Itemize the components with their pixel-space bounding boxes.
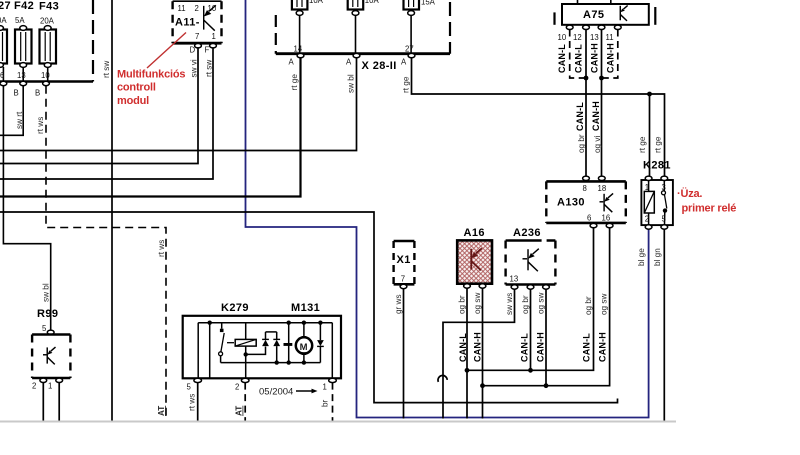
- blue routing wire bl ge bus: [246, 0, 649, 418]
- svg-text:13: 13: [510, 275, 519, 284]
- junction dot coil branch: [244, 352, 248, 356]
- terminal pin 6: [0, 81, 7, 85]
- junction dot CAN-L A16: [465, 368, 470, 373]
- K281 terminal bottom 2: [645, 225, 652, 229]
- twisted pair curl: [438, 375, 447, 381]
- svg-text:CAN-H: CAN-H: [590, 43, 600, 73]
- svg-text:rt ge: rt ge: [638, 136, 647, 153]
- wire A130 pin6 og br to CAN-L bus: [467, 228, 594, 370]
- mechanical link dashes: [227, 342, 234, 344]
- svg-text:og vi: og vi: [593, 136, 602, 153]
- svg-text:A: A: [346, 58, 352, 67]
- svg-text:10A: 10A: [309, 0, 324, 5]
- svg-text:gr ws: gr ws: [394, 294, 403, 314]
- svg-text:1: 1: [212, 32, 216, 41]
- svg-text:B: B: [35, 89, 40, 98]
- K279 terminal pin 1: [329, 378, 337, 382]
- K281 terminal top 3: [661, 176, 668, 180]
- fuse F27 (cut at left edge): [0, 0, 11, 67]
- K279 inner top rail: [198, 322, 332, 324]
- svg-text:sw bl: sw bl: [347, 74, 356, 93]
- terminal pin 13: [20, 81, 27, 85]
- svg-text:A130: A130: [557, 197, 585, 209]
- svg-text:6: 6: [0, 71, 4, 80]
- svg-text:CAN-H: CAN-H: [606, 43, 616, 73]
- svg-text:14: 14: [294, 45, 303, 54]
- svg-text:og br: og br: [584, 296, 593, 315]
- K281 contact: [662, 181, 668, 225]
- R99 terminal bottom 1: [56, 378, 63, 382]
- A130 terminal pin 16: [606, 223, 613, 227]
- svg-text:CAN-L: CAN-L: [582, 333, 592, 362]
- svg-text:2: 2: [645, 215, 649, 224]
- A75 terminal pin 11: [614, 25, 621, 29]
- A16 terminal og sw: [479, 284, 486, 288]
- resistor R99 box: [32, 335, 70, 379]
- svg-text:K279: K279: [221, 302, 249, 314]
- A75 dashed CAN-L wire (pin 10): [570, 30, 584, 79]
- wire K279 pin2 down (dashed): [244, 383, 246, 421]
- svg-text:A: A: [289, 58, 295, 67]
- svg-text:1: 1: [323, 383, 327, 392]
- A75 CAN-L wire (pin 12) to A130: [585, 30, 587, 176]
- svg-text:27: 27: [405, 45, 414, 54]
- wire pin 6 to R99 pin 5: [3, 86, 50, 331]
- svg-text:A16: A16: [464, 227, 485, 239]
- wire A236 sw ws down-left with twisted pair curl: [443, 289, 515, 418]
- X1 terminal: [400, 284, 407, 288]
- X28-II connector bus bar: [276, 52, 450, 55]
- svg-text:A: A: [401, 58, 407, 67]
- wire R99 pin 2 down: [42, 383, 44, 421]
- wire coil branch to diode: [246, 347, 266, 355]
- svg-text:rt ws: rt ws: [36, 117, 45, 134]
- junction dot on rail: [208, 321, 212, 325]
- junction dot CAN-H A16: [480, 383, 485, 388]
- svg-text:CAN-L: CAN-L: [574, 44, 584, 73]
- svg-text:og sw: og sw: [537, 293, 546, 314]
- A11 terminal F: [210, 44, 217, 48]
- wire stub fuse F27 to bus: [2, 67, 4, 82]
- svg-text:1: 1: [48, 382, 52, 391]
- junction dot capacitor bottom: [287, 360, 291, 364]
- A75 dashed CAN-H wire (pin 11): [604, 30, 618, 79]
- svg-text:F: F: [205, 46, 210, 55]
- svg-text:20A: 20A: [40, 17, 55, 26]
- svg-text:13: 13: [590, 33, 599, 42]
- svg-text:2: 2: [195, 4, 199, 13]
- A75 terminal pin 10: [566, 25, 573, 29]
- K279 terminal pin 2: [241, 378, 249, 382]
- bus wire L1 to X28-II middle: [0, 57, 357, 151]
- svg-text:M131: M131: [291, 302, 320, 314]
- svg-text:15A: 15A: [421, 0, 436, 7]
- K279 inner bottom rail: [221, 362, 321, 364]
- svg-text:bl ge: bl ge: [637, 248, 646, 266]
- red annotation Multifunkcios controll modul: [117, 69, 185, 107]
- A16 arrow symbol: [471, 248, 482, 270]
- svg-text:0A: 0A: [0, 16, 7, 25]
- A236 terminal og sw: [543, 285, 550, 289]
- svg-text:og br: og br: [458, 295, 467, 314]
- junction dot motor bottom: [302, 360, 306, 364]
- A75 top stub 1: [577, 0, 579, 4]
- diode D1: [262, 332, 269, 346]
- svg-text:·Üza.: ·Üza.: [677, 187, 702, 200]
- wire pin 10 rt ws (dashed) to bottom: [46, 86, 166, 421]
- svg-text:rt ge: rt ge: [654, 136, 663, 153]
- svg-text:rt ge: rt ge: [402, 76, 411, 93]
- module A16 box (crosshatched): [457, 240, 492, 283]
- X28-II bracket left (dashed): [275, 15, 277, 54]
- A75 top stub 2: [610, 0, 612, 4]
- A236 terminal sw ws: [511, 285, 518, 289]
- svg-text:CAN-H: CAN-H: [473, 332, 483, 362]
- svg-text:AT: AT: [157, 406, 166, 416]
- K279 terminal pin 5: [194, 378, 202, 382]
- module A11 box: [173, 1, 222, 43]
- svg-text:K281: K281: [643, 160, 671, 172]
- X28-II terminal pin 27: [408, 53, 415, 57]
- bottom border line (gray): [0, 421, 676, 423]
- A75 terminal pin 13: [598, 25, 605, 29]
- bus wire L5 to lower bus: [0, 212, 618, 403]
- A130 arrow symbol: [600, 193, 614, 212]
- svg-text:8: 8: [583, 184, 587, 193]
- wire fuse3 to bus: [410, 15, 412, 53]
- wire fuse2 to bus: [355, 15, 357, 53]
- svg-text:12: 12: [573, 33, 582, 42]
- svg-text:og br: og br: [521, 295, 530, 314]
- svg-text:10A: 10A: [365, 0, 380, 5]
- svg-text:X1: X1: [397, 254, 411, 266]
- wire stub fuse F43 to bus: [47, 67, 49, 82]
- wire A236 og sw down: [545, 289, 547, 386]
- svg-text:F43: F43: [39, 1, 59, 13]
- svg-text:5: 5: [42, 324, 47, 333]
- svg-text:2: 2: [235, 383, 239, 392]
- svg-text:27: 27: [0, 0, 11, 12]
- wire K281 pin5 bl gn down: [663, 229, 665, 420]
- bus wire L3 to A11 F: [0, 48, 213, 179]
- svg-text:primer relé: primer relé: [682, 203, 737, 215]
- motor M131 symbol: [296, 323, 312, 363]
- K281 terminal bottom 5: [661, 225, 668, 229]
- svg-text:CAN-H: CAN-H: [598, 332, 608, 362]
- svg-text:CAN-L: CAN-L: [575, 102, 585, 131]
- gateway A75 box: [562, 4, 649, 25]
- svg-text:13: 13: [17, 71, 26, 80]
- diode pair top link: [266, 331, 277, 333]
- junction dot CAN-L A236: [528, 368, 533, 373]
- A11 arrow symbol: [204, 5, 216, 30]
- A130 terminal pin 18: [598, 176, 605, 180]
- K279 M131 box: [183, 316, 341, 379]
- svg-text:5A: 5A: [15, 16, 25, 25]
- wire A130 pin16 og sw to CAN-H bus: [483, 228, 610, 386]
- wire A236 og br down: [530, 289, 532, 370]
- svg-text:CAN-L: CAN-L: [520, 333, 530, 362]
- K279 inner vertical pin5b: [209, 323, 211, 378]
- A75 terminal pin 12: [583, 25, 590, 29]
- svg-text:A236: A236: [513, 227, 541, 239]
- wire pin 27 to K281 (rt ge bus): [412, 58, 665, 179]
- junction dot CAN-L: [584, 76, 589, 81]
- svg-text:rt ws: rt ws: [157, 240, 166, 257]
- junction dot CAN-H: [599, 76, 604, 81]
- K279 switch: [219, 323, 225, 363]
- A130 terminal pin 8: [583, 176, 590, 180]
- svg-text:05/2004: 05/2004: [259, 387, 293, 398]
- A236 terminal og br: [527, 285, 534, 289]
- date annotation 05/2004: [259, 387, 318, 398]
- svg-text:sw bl: sw bl: [42, 283, 51, 302]
- fuse F43 20A: [39, 1, 59, 68]
- svg-text:F42: F42: [14, 0, 34, 12]
- wire K279 pin1 br down (dashed): [332, 383, 334, 421]
- svg-text:Multifunkciós: Multifunkciós: [117, 69, 185, 81]
- R99 terminal top: [47, 330, 54, 334]
- svg-text:modul: modul: [117, 95, 149, 107]
- long wire rt sw (full height): [111, 0, 113, 421]
- K281 terminal top 1: [645, 176, 652, 180]
- svg-text:og br: og br: [577, 134, 586, 153]
- wire A16 og sw down: [482, 288, 484, 418]
- X28-II terminal pin 14: [297, 53, 304, 57]
- svg-text:controll: controll: [117, 82, 156, 94]
- svg-text:18: 18: [598, 184, 607, 193]
- svg-text:bl gn: bl gn: [653, 248, 662, 266]
- svg-text:br: br: [321, 399, 330, 407]
- svg-text:16: 16: [602, 214, 611, 223]
- fuse block bus bar: [0, 80, 93, 83]
- bus wire L2 to A11 D: [0, 48, 198, 164]
- A75 CAN-H wire (pin 13) to A130: [601, 30, 603, 176]
- svg-text:5: 5: [662, 215, 667, 224]
- K281 coil: [644, 181, 654, 225]
- svg-text:A11-: A11-: [175, 17, 200, 29]
- svg-text:7: 7: [401, 275, 405, 284]
- red annotation Uza primer rele: [677, 187, 736, 215]
- diode D3: [317, 323, 324, 363]
- svg-text:7: 7: [195, 32, 199, 41]
- wire rt ge branch to K281 pin 1: [649, 94, 651, 178]
- svg-text:CAN-H: CAN-H: [591, 101, 601, 131]
- A16 terminal og br: [464, 284, 471, 288]
- A130 terminal pin 6: [590, 223, 597, 227]
- bus wire L4 to X28-II pin 14: [0, 57, 301, 197]
- svg-text:rt sw: rt sw: [102, 61, 111, 78]
- svg-text:6: 6: [587, 214, 591, 223]
- K279 inner vertical pin1: [331, 323, 333, 378]
- junction dot capacitor top: [287, 321, 291, 325]
- wire K279 pin5 rt ws down: [197, 383, 199, 421]
- svg-text:2: 2: [32, 382, 36, 391]
- A75 bracket right: [654, 7, 656, 25]
- capacitor element: [284, 323, 293, 363]
- wire R99 pin 1 down: [58, 383, 60, 421]
- A75 bracket left: [553, 12, 555, 24]
- svg-text:CAN-L: CAN-L: [557, 44, 567, 73]
- A11 terminal D: [195, 44, 202, 48]
- X28-II terminal middle: [353, 53, 360, 57]
- wire pin 13 exits left: [0, 86, 23, 136]
- svg-text:10: 10: [41, 71, 50, 80]
- R99 arrow symbol: [43, 347, 56, 364]
- fuse block bracket (dashed): [92, 0, 94, 82]
- svg-text:11: 11: [178, 4, 186, 13]
- R99 terminal bottom 2: [40, 378, 47, 382]
- K279 inner vertical pin5a: [197, 323, 199, 378]
- junction dot diode D3 top: [318, 321, 322, 325]
- svg-text:rt ws: rt ws: [188, 394, 197, 411]
- relay K281 box: [641, 180, 673, 225]
- svg-text:M: M: [300, 342, 308, 353]
- wire fuse1 to bus: [299, 15, 301, 53]
- wire A16 og br down: [466, 288, 468, 418]
- junction dot motor top: [302, 321, 306, 325]
- svg-text:X 28-II: X 28-II: [362, 60, 397, 72]
- svg-text:rt ge: rt ge: [290, 74, 299, 91]
- svg-text:og sw: og sw: [473, 293, 482, 314]
- junction dot CAN-H A236: [544, 383, 549, 388]
- X28-II bracket right (dashed): [449, 2, 451, 54]
- diode D2: [273, 332, 280, 363]
- svg-text:B: B: [14, 89, 19, 98]
- svg-text:CAN-H: CAN-H: [536, 332, 546, 362]
- connector X1 box: [394, 241, 415, 284]
- K279 coil: [235, 323, 256, 378]
- X1 wire gr ws down: [403, 289, 405, 419]
- A236 arrow symbol: [523, 249, 539, 272]
- svg-text:og sw: og sw: [600, 294, 609, 315]
- svg-text:A75: A75: [583, 9, 604, 21]
- module A236 box: [506, 241, 556, 285]
- svg-text:10: 10: [558, 33, 567, 42]
- svg-text:D: D: [190, 46, 196, 55]
- red annotation line to A11: [147, 33, 186, 69]
- X28-II fuse 1 (10A): [292, 0, 324, 15]
- fuse F42 5A: [14, 0, 34, 67]
- wire stub fuse F42 to bus: [22, 67, 24, 82]
- X28-II fuse 2 (10A): [348, 0, 380, 15]
- terminal pin 10: [43, 81, 50, 85]
- svg-text:5: 5: [187, 383, 192, 392]
- svg-text:CAN-L: CAN-L: [458, 333, 468, 362]
- svg-text:AT: AT: [235, 406, 244, 416]
- junction dot diode bottom: [275, 360, 279, 364]
- X28-II fuse 3 (15A): [404, 0, 436, 15]
- svg-text:11: 11: [606, 33, 614, 42]
- svg-text:sw ws: sw ws: [505, 293, 514, 315]
- module A130 box: [546, 181, 626, 223]
- junction dot rt ge branch: [647, 92, 652, 97]
- A75 arrow symbol: [620, 5, 627, 20]
- svg-text:R99: R99: [37, 308, 58, 320]
